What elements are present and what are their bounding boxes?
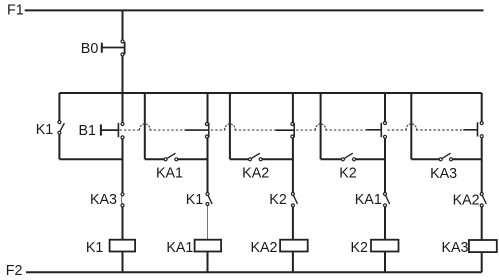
- svg-text:B1: B1: [79, 123, 97, 139]
- svg-text:F1: F1: [7, 3, 24, 19]
- svg-text:KA1: KA1: [166, 240, 193, 256]
- svg-text:KA2: KA2: [242, 166, 269, 182]
- svg-text:KA1: KA1: [355, 192, 382, 208]
- svg-text:KA1: KA1: [156, 166, 183, 182]
- svg-text:KA2: KA2: [453, 193, 480, 209]
- svg-text:K1: K1: [86, 240, 104, 256]
- svg-text:K2: K2: [339, 165, 357, 181]
- svg-text:KA3: KA3: [90, 192, 117, 208]
- svg-text:F2: F2: [6, 263, 23, 279]
- svg-text:KA3: KA3: [430, 166, 457, 182]
- svg-text:B0: B0: [81, 41, 99, 57]
- svg-text:KA2: KA2: [250, 240, 277, 256]
- svg-text:K1: K1: [36, 122, 54, 138]
- svg-text:K1: K1: [186, 192, 204, 208]
- svg-text:K2: K2: [269, 192, 287, 208]
- svg-text:KA3: KA3: [441, 240, 468, 256]
- svg-text:K2: K2: [351, 240, 369, 256]
